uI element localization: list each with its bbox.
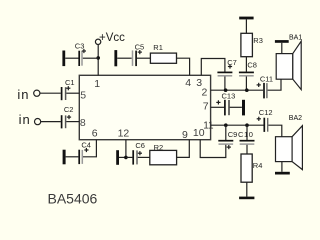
ground (BA2) <box>275 172 290 175</box>
node C9 junction <box>224 123 228 127</box>
wire C2 to pin 8 <box>66 121 79 123</box>
wire C5 to R1 <box>137 57 151 59</box>
wire C1 to pin 5 <box>66 92 79 94</box>
wire C3 to Vcc junction <box>83 57 98 59</box>
capacitor C3 <box>75 42 86 66</box>
ground (C5) <box>114 50 117 66</box>
wire in to C2 <box>41 121 61 123</box>
capacitor C1 <box>62 78 75 100</box>
svg-text:10: 10 <box>193 127 205 139</box>
speaker BA2 <box>276 115 303 169</box>
wire C7 to output wire <box>224 77 226 91</box>
svg-text:2: 2 <box>202 87 208 99</box>
wire ground to BA1 <box>281 43 283 54</box>
svg-text:R4: R4 <box>253 161 263 170</box>
ground (C3) <box>62 51 65 67</box>
wire BA2 to ground <box>281 162 283 172</box>
svg-text:in: in <box>17 87 29 102</box>
capacitor C12 <box>257 108 273 132</box>
wire ground to node <box>119 156 126 158</box>
capacitor C6 <box>133 141 145 164</box>
terminal in (top) <box>17 87 40 102</box>
svg-text:C3: C3 <box>75 42 85 51</box>
svg-text:R3: R3 <box>253 36 263 45</box>
wire C8 to output wire <box>245 77 247 91</box>
capacitor C10 <box>238 130 255 144</box>
resistor R3 <box>241 33 263 56</box>
wire Vcc circle down to pin 1 <box>97 45 99 76</box>
wire pin 7 to C13 <box>211 106 225 108</box>
wire C4 to pin 6 <box>83 140 96 157</box>
svg-text:C10: C10 <box>238 130 254 139</box>
wire pin 11 output <box>211 124 264 126</box>
capacitor C2 <box>62 105 74 129</box>
capacitor C5 <box>133 43 145 67</box>
ground (BA1) <box>275 40 289 43</box>
ground (C13) <box>242 100 245 116</box>
ground (C6) <box>116 150 119 165</box>
svg-text:+Vcc: +Vcc <box>99 32 125 44</box>
wire ground to C3 <box>65 57 78 59</box>
speaker BA1 <box>276 35 302 90</box>
wire C6 to R2 <box>138 156 150 158</box>
op-amp IC U1 BA5406 body <box>79 75 210 139</box>
wire pin 2 output <box>211 89 264 91</box>
svg-text:R2: R2 <box>154 143 164 152</box>
svg-text:BA5406: BA5406 <box>48 191 98 207</box>
wire R4 to ground <box>246 182 248 196</box>
wire R2 to pin 9 <box>177 140 190 158</box>
terminal +Vcc <box>95 32 125 44</box>
wire ground to C4 <box>66 156 79 158</box>
ground (R4) <box>239 197 254 200</box>
svg-text:C13: C13 <box>222 92 236 101</box>
wire in to C1 <box>40 92 61 94</box>
wire pin 12 down <box>125 140 127 158</box>
svg-text:6: 6 <box>92 127 98 139</box>
wire R1 to pin 4 <box>177 58 190 75</box>
ground (C4) <box>63 150 66 165</box>
svg-text:R1: R1 <box>153 43 163 52</box>
wire C9 to pin 10 <box>200 140 226 158</box>
svg-text:C11: C11 <box>260 74 273 83</box>
svg-text:C1: C1 <box>65 78 75 87</box>
capacitor C4 <box>79 140 91 164</box>
wire pin11 node down to C10 <box>246 125 248 140</box>
resistor R1 <box>150 43 176 63</box>
wire C11 to speaker BA1 <box>268 79 281 90</box>
wire C10 to R4 <box>246 145 248 154</box>
node Vcc junction <box>96 56 100 60</box>
capacitor C9 <box>218 130 237 149</box>
capacitor C8 <box>239 61 257 76</box>
wire C12 to speaker BA2 <box>268 125 281 137</box>
wire pin11 node down to C9 <box>225 125 227 140</box>
wire pin 3 to C7 top <box>201 59 225 76</box>
capacitor C11 <box>257 74 274 98</box>
node C10 junction <box>245 123 249 127</box>
svg-text:BA1: BA1 <box>289 35 302 42</box>
node C7 junction <box>224 88 228 92</box>
wire node to C6 <box>126 156 132 158</box>
svg-text:in: in <box>19 112 31 127</box>
svg-text:C7: C7 <box>227 58 237 67</box>
resistor R4 <box>241 154 262 182</box>
svg-text:9: 9 <box>182 129 188 141</box>
ground (R3) <box>239 17 253 20</box>
capacitor C13 <box>216 92 235 116</box>
wire C13 to ground <box>230 106 242 108</box>
svg-text:4: 4 <box>185 77 191 89</box>
wire R3 to C8 <box>245 57 247 72</box>
svg-text:BA2: BA2 <box>289 115 302 122</box>
terminal in (bottom) <box>19 112 41 127</box>
svg-text:C12: C12 <box>259 108 273 117</box>
node C8 junction <box>245 88 249 92</box>
svg-text:C2: C2 <box>64 105 74 114</box>
node pin12 junction <box>124 156 128 160</box>
svg-text:C6: C6 <box>135 141 145 150</box>
svg-text:7: 7 <box>203 101 209 113</box>
svg-text:11: 11 <box>203 120 214 131</box>
wire ground to R3 <box>245 19 247 33</box>
svg-text:C9: C9 <box>228 130 238 139</box>
svg-text:C8: C8 <box>247 61 257 70</box>
svg-text:8: 8 <box>80 117 86 129</box>
svg-text:5: 5 <box>80 90 86 102</box>
resistor R2 <box>150 143 177 165</box>
capacitor C7 <box>217 58 236 76</box>
svg-text:1: 1 <box>94 78 100 90</box>
svg-text:12: 12 <box>118 127 130 139</box>
wire ground to C5 <box>117 57 132 59</box>
